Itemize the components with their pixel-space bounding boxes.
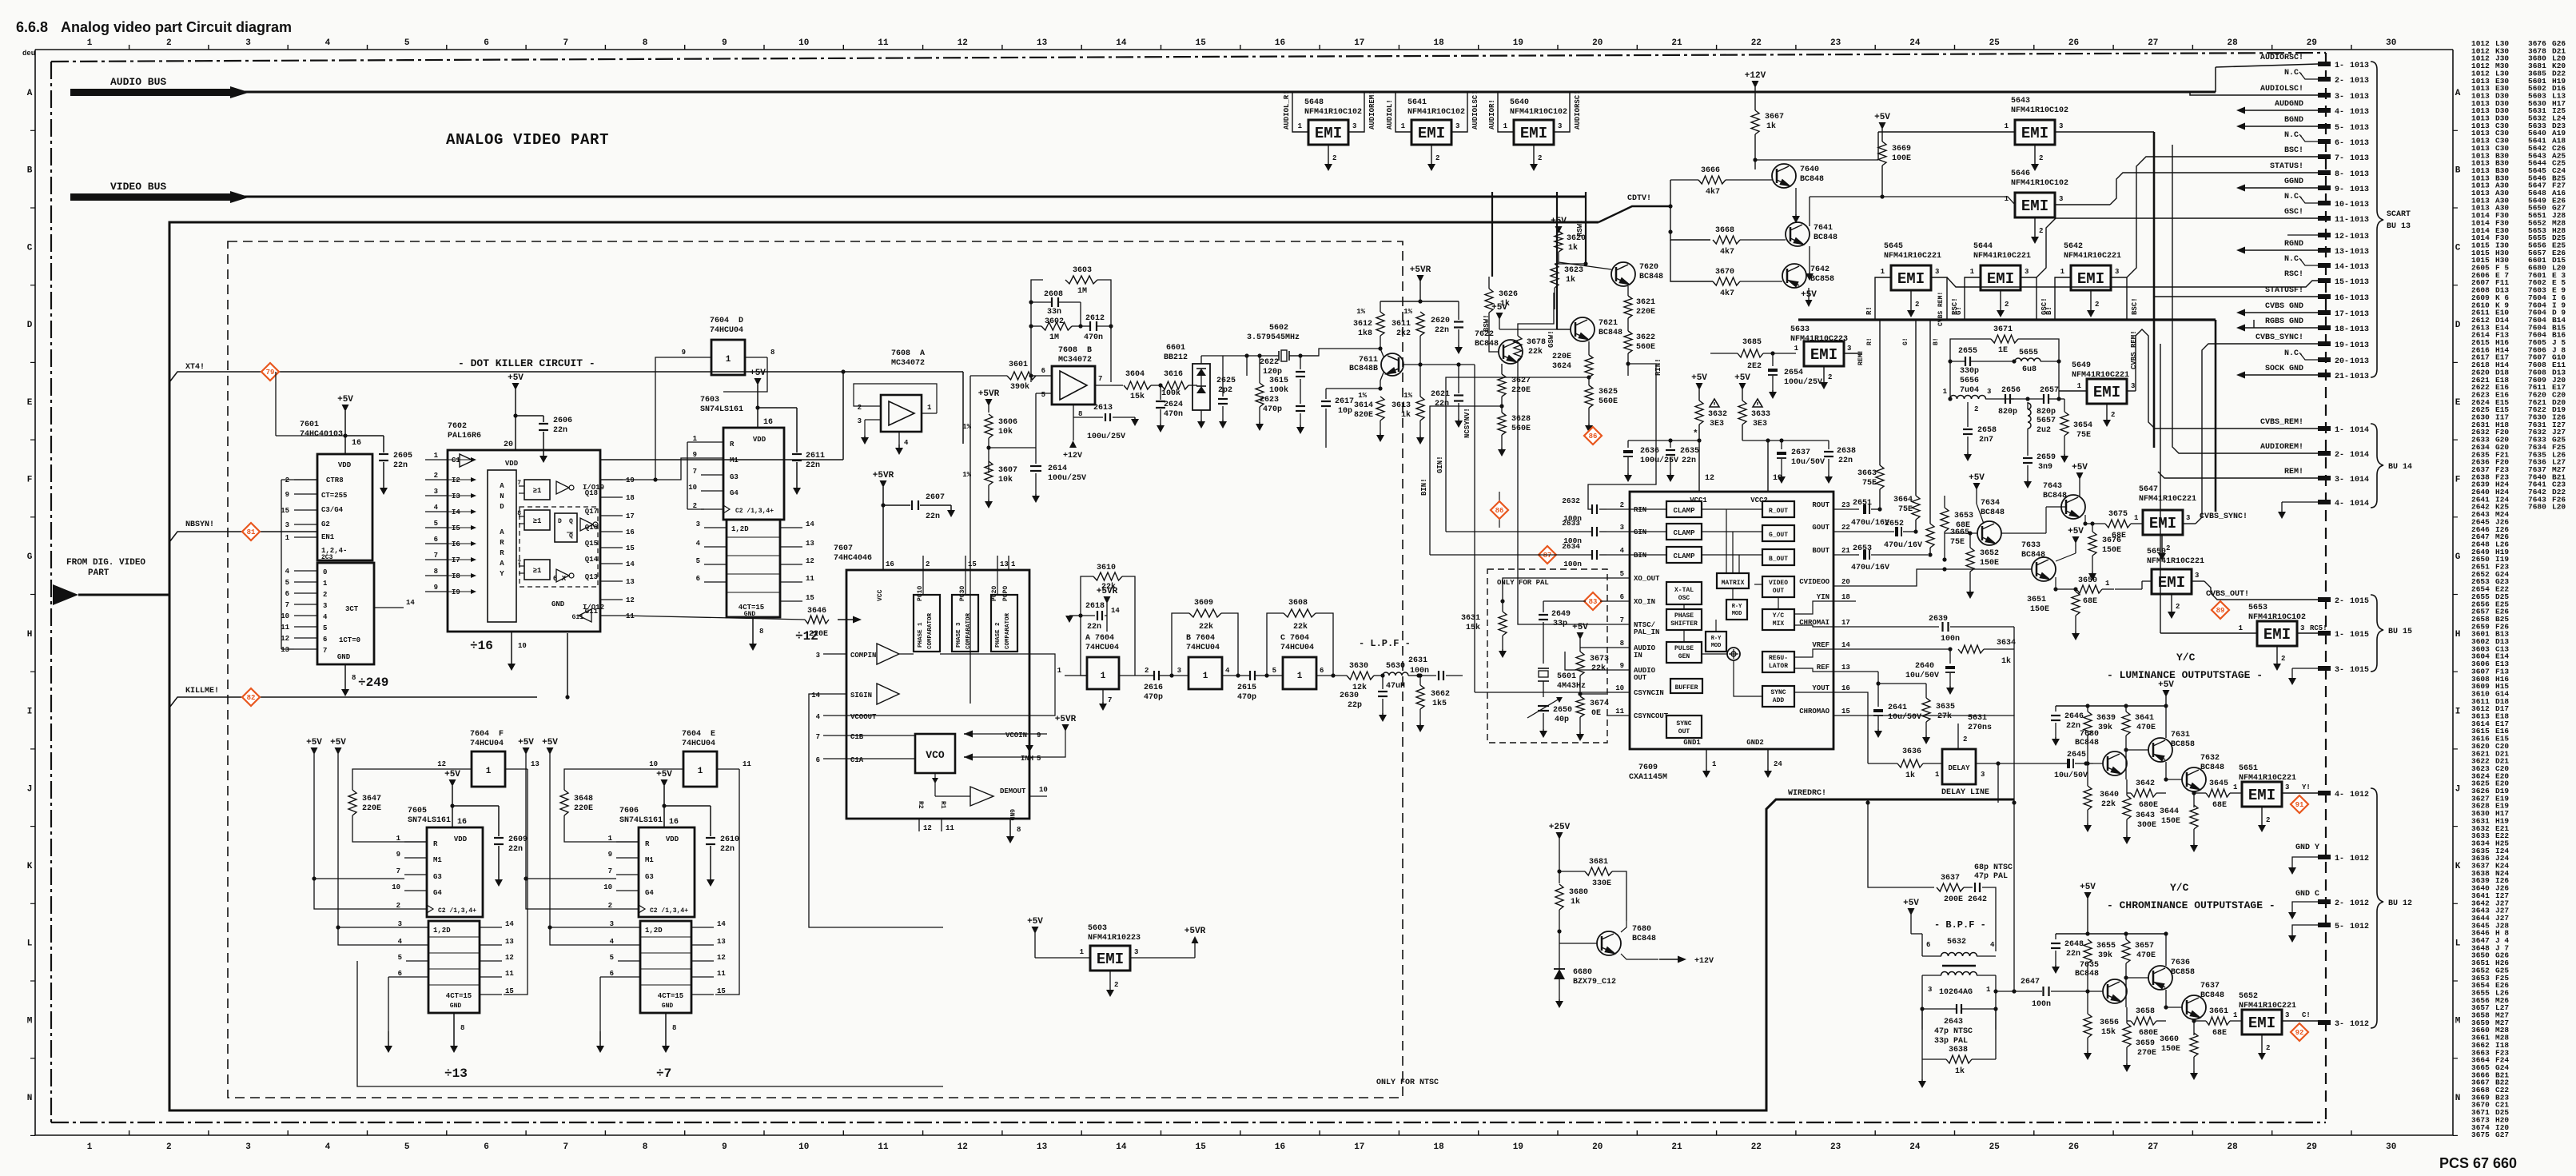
svg-text:- B.P.F -: - B.P.F - bbox=[1934, 919, 1986, 931]
capacitor 2613 bbox=[1073, 417, 1103, 418]
svg-text:7622: 7622 bbox=[1475, 330, 1494, 339]
svg-text:7: 7 bbox=[563, 38, 568, 48]
svg-text:3: 3 bbox=[434, 488, 438, 496]
svg-text:+5V: +5V bbox=[2068, 527, 2084, 536]
svg-text:6 X: 6 X bbox=[553, 575, 567, 583]
svg-text:2635: 2635 bbox=[1680, 447, 1699, 456]
svg-text:16: 16 bbox=[886, 560, 894, 568]
svg-text:1: 1 bbox=[1712, 760, 1717, 768]
svg-text:28: 28 bbox=[2227, 1142, 2238, 1152]
from dig video part arrow bbox=[53, 584, 78, 605]
transistor 7631 bbox=[2148, 738, 2172, 762]
svg-text:7632: 7632 bbox=[2200, 754, 2220, 763]
resistor 3608 bbox=[1284, 609, 1316, 617]
svg-text:2613: 2613 bbox=[1093, 404, 1113, 413]
resistor 3675 bbox=[2084, 515, 2086, 524]
svg-text:VDD: VDD bbox=[505, 460, 519, 468]
svg-text:22n: 22n bbox=[1682, 456, 1696, 465]
svg-text:5: 5 bbox=[323, 624, 327, 632]
resistor 3643 bbox=[2123, 795, 2131, 819]
svg-text:1013: 1013 bbox=[2350, 216, 2369, 225]
svg-text:3664: 3664 bbox=[1893, 496, 1913, 504]
svg-text:16-: 16- bbox=[2335, 294, 2349, 303]
svg-text:3662: 3662 bbox=[1431, 690, 1450, 699]
svg-text:150E: 150E bbox=[2102, 546, 2121, 555]
pin 19 wire bbox=[1767, 441, 1769, 492]
wire AUDIOREM bbox=[2172, 145, 2318, 453]
svg-text:Q15: Q15 bbox=[585, 540, 598, 548]
svg-text:7642: 7642 bbox=[1810, 265, 1829, 274]
zener 6680 bbox=[1559, 947, 1560, 969]
svg-text:7: 7 bbox=[323, 647, 327, 655]
svg-text:17: 17 bbox=[1841, 619, 1850, 627]
IC 7603 lower box bbox=[727, 520, 780, 617]
svg-text:18: 18 bbox=[626, 494, 635, 502]
svg-text:3CT: 3CT bbox=[345, 605, 359, 613]
svg-text:VCOOUT: VCOOUT bbox=[850, 713, 877, 721]
svg-text:PCS 67 660: PCS 67 660 bbox=[2439, 1155, 2517, 1171]
audio bus wire bbox=[240, 91, 2216, 94]
svg-text:3675: 3675 bbox=[2471, 1130, 2490, 1139]
svg-text:5645: 5645 bbox=[1884, 242, 1903, 251]
svg-text:3680: 3680 bbox=[1569, 888, 1588, 897]
svg-text:15k: 15k bbox=[1130, 392, 1145, 401]
svg-text:≥1: ≥1 bbox=[533, 517, 542, 525]
resistor 3676 bbox=[2088, 532, 2096, 556]
svg-text:ADD: ADD bbox=[1773, 697, 1785, 704]
op-amp 7608B pins bbox=[1036, 375, 1052, 377]
wire cvideoo to buffer stage bbox=[1856, 569, 1945, 586]
svg-text:2k2: 2k2 bbox=[1396, 329, 1411, 338]
CVBS_OUT wire to connector bbox=[2204, 581, 2322, 600]
svg-text:GND: GND bbox=[337, 653, 351, 661]
svg-text:2645: 2645 bbox=[2067, 751, 2086, 759]
svg-text:200E: 200E bbox=[1944, 895, 1963, 904]
left pins CXA bbox=[1607, 508, 1630, 510]
svg-text:AUDIOLSC!: AUDIOLSC! bbox=[2260, 85, 2303, 94]
net marker 89 bbox=[2212, 601, 2229, 619]
svg-text:21: 21 bbox=[1671, 1142, 1682, 1152]
svg-text:1013: 1013 bbox=[2350, 233, 2369, 241]
capacitor 2657 bbox=[2043, 394, 2044, 404]
svg-text:81: 81 bbox=[247, 528, 256, 536]
svg-text:19: 19 bbox=[1513, 38, 1523, 48]
svg-text:11: 11 bbox=[281, 624, 289, 632]
scart pin 8 BU13 STATUS! bbox=[2318, 170, 2331, 175]
svg-text:3-: 3- bbox=[2335, 666, 2344, 675]
svg-text:NFM41R10C221: NFM41R10C221 bbox=[2139, 495, 2196, 504]
svg-text:29: 29 bbox=[2307, 38, 2317, 48]
svg-text:2: 2 bbox=[1974, 405, 1978, 413]
svg-text:MC34072: MC34072 bbox=[891, 359, 925, 368]
svg-text:120p: 120p bbox=[1263, 368, 1282, 377]
svg-text:SN74LS161: SN74LS161 bbox=[619, 816, 663, 825]
chroma vertical from pin15 bbox=[1856, 716, 2014, 763]
svg-text:GND: GND bbox=[551, 600, 565, 608]
svg-text:FROM DIG. VIDEO: FROM DIG. VIDEO bbox=[66, 558, 145, 568]
svg-text:MIX: MIX bbox=[1773, 620, 1785, 628]
svg-text:16: 16 bbox=[626, 528, 635, 536]
svg-text:COMPARATOR: COMPARATOR bbox=[927, 612, 934, 649]
svg-text:4-: 4- bbox=[2335, 500, 2344, 508]
svg-text:GEN: GEN bbox=[1678, 653, 1690, 660]
svg-text:470E: 470E bbox=[2136, 724, 2156, 732]
svg-text:1: 1 bbox=[1935, 771, 1940, 779]
svg-text:7636: 7636 bbox=[2171, 959, 2190, 967]
resistor 3641 bbox=[2122, 712, 2130, 735]
svg-text:28: 28 bbox=[2227, 38, 2238, 48]
svg-text:1014: 1014 bbox=[2350, 451, 2369, 460]
svg-text:12: 12 bbox=[1705, 474, 1714, 483]
svg-text:GND: GND bbox=[744, 611, 756, 618]
IC 7605 SN74LS161 pin8 ground bbox=[453, 1013, 455, 1031]
transistor 7641 bbox=[1786, 222, 1810, 246]
svg-text:3613: 3613 bbox=[1392, 401, 1411, 410]
svg-text:21: 21 bbox=[1671, 38, 1682, 48]
svg-text:3n9: 3n9 bbox=[2038, 463, 2052, 472]
svg-text:INH: INH bbox=[1021, 755, 1033, 763]
svg-text:EMI: EMI bbox=[1418, 125, 1445, 142]
scart pin 4 BU13 AUDGND bbox=[2318, 108, 2331, 113]
svg-text:22k: 22k bbox=[1293, 622, 1308, 632]
svg-text:7602: 7602 bbox=[448, 422, 467, 431]
svg-text:1013: 1013 bbox=[2350, 373, 2369, 381]
svg-text:100k: 100k bbox=[1161, 389, 1181, 398]
svg-text:74HCU04: 74HCU04 bbox=[470, 739, 504, 748]
svg-text:8: 8 bbox=[759, 628, 763, 636]
svg-text:15k: 15k bbox=[1466, 623, 1480, 632]
svg-text:2659: 2659 bbox=[2037, 453, 2056, 462]
connector pin 2 BU14 AUDIOREM! bbox=[2318, 451, 2331, 456]
svg-text:AUDGND: AUDGND bbox=[2275, 100, 2303, 109]
svg-text:G11: G11 bbox=[585, 608, 599, 616]
svg-text:39k: 39k bbox=[2098, 951, 2112, 960]
svg-text:5644: 5644 bbox=[1973, 242, 1993, 251]
svg-text:7635: 7635 bbox=[2080, 961, 2099, 970]
resistor 3638 bbox=[1946, 1055, 1972, 1063]
svg-text:G3: G3 bbox=[730, 473, 739, 481]
resistor 3657 bbox=[2122, 939, 2130, 963]
svg-text:2606: 2606 bbox=[553, 417, 572, 425]
svg-text:J: J bbox=[27, 784, 33, 794]
svg-text:WIREDRC!: WIREDRC! bbox=[1788, 789, 1826, 798]
svg-text:3: 3 bbox=[1177, 667, 1181, 675]
resistor 3610 bbox=[1093, 572, 1122, 580]
svg-text:F: F bbox=[27, 476, 33, 485]
capacitor 2610 bbox=[662, 803, 666, 807]
svg-text:3634: 3634 bbox=[1997, 639, 2016, 648]
svg-text:RGND: RGND bbox=[2284, 240, 2303, 249]
svg-text:3607: 3607 bbox=[998, 466, 1017, 475]
7602 input buffer triangle bbox=[460, 454, 473, 467]
capacitor 2615 bbox=[1249, 671, 1251, 680]
svg-text:SIGIN: SIGIN bbox=[850, 692, 872, 700]
svg-text:REGU-: REGU- bbox=[1769, 655, 1788, 662]
svg-text:8: 8 bbox=[434, 568, 438, 576]
svg-text:3-: 3- bbox=[2335, 93, 2344, 102]
svg-text:7: 7 bbox=[517, 480, 521, 487]
svg-text:5: 5 bbox=[285, 579, 289, 587]
capacitor 2631 bbox=[1419, 675, 1436, 676]
svg-text:2610: 2610 bbox=[720, 835, 739, 844]
svg-text:+5V: +5V bbox=[1969, 473, 1985, 483]
svg-text:19: 19 bbox=[626, 476, 635, 484]
resistor 3650 bbox=[2055, 577, 2056, 589]
svg-text:22n: 22n bbox=[1435, 400, 1449, 409]
resistor 3611 bbox=[1416, 312, 1424, 336]
svg-text:14: 14 bbox=[406, 599, 415, 607]
svg-text:B!: B! bbox=[2045, 306, 2053, 315]
svg-text:7601: 7601 bbox=[300, 421, 319, 429]
svg-text:6: 6 bbox=[434, 536, 438, 544]
svg-text:CLAMP: CLAMP bbox=[1673, 529, 1695, 537]
svg-text:13-: 13- bbox=[2335, 248, 2349, 257]
svg-text:RIN: RIN bbox=[1634, 506, 1646, 514]
capacitor 2611 bbox=[755, 405, 759, 409]
capacitor 2617 bbox=[1325, 389, 1327, 399]
svg-text:2: 2 bbox=[1145, 667, 1149, 675]
svg-text:ANALOG VIDEO PART: ANALOG VIDEO PART bbox=[446, 131, 609, 149]
svg-text:3609: 3609 bbox=[1194, 599, 1213, 608]
svg-text:D: D bbox=[558, 518, 562, 525]
svg-text:12: 12 bbox=[806, 557, 814, 565]
svg-text:G3: G3 bbox=[433, 873, 442, 881]
IC 7606 SN74LS161 pins lower bbox=[618, 927, 640, 928]
7602 dashed 6X box bbox=[520, 507, 598, 587]
svg-text:2: 2 bbox=[2266, 816, 2270, 824]
svg-text:SYNC: SYNC bbox=[1676, 720, 1691, 728]
svg-text:5630: 5630 bbox=[1386, 662, 1405, 671]
svg-text:I7: I7 bbox=[452, 556, 460, 564]
svg-text:3668: 3668 bbox=[1715, 226, 1734, 235]
svg-text:2618: 2618 bbox=[1085, 602, 1105, 611]
svg-text:J: J bbox=[2455, 784, 2461, 794]
svg-text:2649: 2649 bbox=[1551, 610, 1571, 619]
svg-text:9: 9 bbox=[434, 584, 438, 592]
ground arrow left 7605 SN74LS161 bbox=[388, 976, 406, 978]
svg-text:VCOIN: VCOIN bbox=[1005, 732, 1027, 739]
svg-text:2C3: 2C3 bbox=[321, 554, 333, 561]
capacitor 2623 bbox=[1300, 392, 1301, 404]
svg-text:R: R bbox=[730, 441, 735, 448]
svg-text:220E: 220E bbox=[574, 804, 593, 813]
svg-text:A: A bbox=[500, 528, 504, 536]
svg-text:BU 12: BU 12 bbox=[2388, 899, 2412, 908]
7602 G11 inverter bbox=[579, 609, 591, 622]
resistor 3653 bbox=[1941, 508, 1949, 532]
capacitor 2618 bbox=[1081, 615, 1095, 616]
svg-text:6: 6 bbox=[1926, 941, 1930, 949]
scart pin 13 BU13 RGND bbox=[2318, 248, 2331, 253]
svg-text:1012: 1012 bbox=[2350, 791, 2369, 799]
svg-text:470u/16V: 470u/16V bbox=[1884, 540, 1922, 550]
YOUT wire to delay bbox=[1856, 692, 1868, 763]
svg-text:1M: 1M bbox=[1077, 287, 1087, 296]
svg-text:7: 7 bbox=[693, 468, 697, 476]
pal_in wire bbox=[1518, 360, 1607, 624]
svg-text:12: 12 bbox=[626, 596, 635, 604]
svg-text:1013: 1013 bbox=[2350, 248, 2369, 257]
svg-text:3685: 3685 bbox=[1742, 338, 1762, 347]
svg-text:8: 8 bbox=[643, 1142, 648, 1152]
svg-text:22k: 22k bbox=[1199, 622, 1213, 632]
svg-text:1: 1 bbox=[1401, 122, 1406, 130]
svg-text:3650: 3650 bbox=[2078, 576, 2097, 585]
svg-text:CVBS REM!: CVBS REM! bbox=[1937, 292, 1945, 326]
svg-text:G_OUT: G_OUT bbox=[1769, 532, 1788, 539]
svg-text:IN: IN bbox=[1634, 652, 1642, 660]
svg-text:AUDIO BUS: AUDIO BUS bbox=[110, 76, 166, 88]
svg-text:12: 12 bbox=[281, 635, 289, 643]
svg-text:2653: 2653 bbox=[1853, 544, 1872, 553]
svg-text:GND C: GND C bbox=[2295, 890, 2319, 899]
svg-text:74HC4046: 74HC4046 bbox=[834, 554, 872, 563]
svg-text:3: 3 bbox=[2300, 624, 2304, 632]
svg-text:BC848: BC848 bbox=[1800, 175, 1824, 184]
svg-text:1k5: 1k5 bbox=[1432, 699, 1447, 708]
svg-text:1013: 1013 bbox=[2350, 185, 2369, 194]
IC 7601 pin8 ground bbox=[344, 664, 346, 681]
svg-text:EMI: EMI bbox=[2077, 270, 2104, 288]
svg-text:EMI: EMI bbox=[1315, 125, 1342, 142]
svg-text:5: 5 bbox=[1037, 755, 1041, 763]
IC 7601 upper box bbox=[317, 454, 372, 560]
svg-text:2640: 2640 bbox=[1915, 662, 1934, 671]
svg-text:EMI: EMI bbox=[1810, 346, 1837, 364]
svg-text:100u/25V: 100u/25V bbox=[1784, 377, 1822, 387]
capacitor 2608 bbox=[1051, 297, 1053, 307]
7607 COMPIN pin3 bbox=[823, 653, 846, 655]
svg-text:68E: 68E bbox=[2212, 801, 2227, 810]
svg-text:3648: 3648 bbox=[574, 795, 593, 803]
IC 7602 left pins bbox=[425, 459, 448, 460]
svg-text:2654: 2654 bbox=[1784, 369, 1803, 377]
svg-text:R2: R2 bbox=[917, 801, 924, 809]
svg-text:11: 11 bbox=[946, 824, 954, 832]
svg-text:2615: 2615 bbox=[1237, 684, 1256, 692]
bottom routing wire bbox=[357, 961, 943, 1086]
IC 7603 upper box bbox=[723, 428, 784, 520]
transistor 7636 bbox=[2148, 966, 2172, 990]
svg-text:1k: 1k bbox=[1766, 122, 1776, 131]
xo_out wire bbox=[1503, 578, 1607, 601]
svg-text:74HCU04: 74HCU04 bbox=[1085, 644, 1119, 652]
svg-text:1: 1 bbox=[726, 355, 731, 365]
svg-text:10-: 10- bbox=[2335, 201, 2349, 209]
svg-text:I9: I9 bbox=[452, 588, 460, 596]
svg-text:3646: 3646 bbox=[807, 607, 826, 616]
svg-text:3663: 3663 bbox=[1857, 469, 1877, 478]
svg-text:1013: 1013 bbox=[2350, 278, 2369, 287]
svg-text:GND: GND bbox=[450, 1003, 462, 1010]
svg-text:EMI: EMI bbox=[1097, 951, 1124, 968]
svg-text:VCC: VCC bbox=[877, 589, 884, 601]
svg-text:19-: 19- bbox=[2335, 341, 2349, 350]
svg-text:3601: 3601 bbox=[1009, 361, 1028, 369]
svg-text:6u8: 6u8 bbox=[2022, 365, 2037, 374]
svg-text:22n: 22n bbox=[508, 845, 523, 854]
svg-text:BC848: BC848 bbox=[1639, 273, 1663, 281]
svg-text:23: 23 bbox=[1841, 501, 1850, 509]
svg-text:10k: 10k bbox=[998, 475, 1013, 484]
svg-text:3626: 3626 bbox=[1499, 290, 1518, 299]
svg-text:1013: 1013 bbox=[2350, 325, 2369, 334]
svg-text:11: 11 bbox=[505, 970, 514, 978]
svg-text:6: 6 bbox=[696, 575, 700, 583]
7611 base collector emitter wires bbox=[1289, 349, 1380, 356]
svg-text:GSW!: GSW! bbox=[1547, 330, 1555, 348]
svg-text:6: 6 bbox=[484, 38, 489, 48]
svg-text:OSC: OSC bbox=[1678, 595, 1690, 602]
svg-text:Y/C: Y/C bbox=[2176, 652, 2196, 664]
7607 VCO box bbox=[915, 734, 955, 773]
svg-text:K: K bbox=[27, 862, 33, 871]
svg-text:5: 5 bbox=[404, 38, 410, 48]
svg-text:9: 9 bbox=[1037, 732, 1041, 739]
net markers 86 87 88 bbox=[1584, 427, 1602, 444]
wire GSC bbox=[2037, 218, 2318, 277]
capacitor 2655 bbox=[1965, 357, 1966, 366]
svg-text:33n: 33n bbox=[1047, 308, 1061, 317]
svg-text:EMI: EMI bbox=[2093, 384, 2120, 401]
svg-text:1,2D: 1,2D bbox=[731, 525, 749, 533]
vertical bus x2772 bbox=[2215, 67, 2216, 92]
svg-text:13: 13 bbox=[806, 540, 814, 548]
svg-text:+5V: +5V bbox=[1027, 917, 1043, 927]
svg-text:VDD: VDD bbox=[338, 461, 352, 469]
svg-text:8: 8 bbox=[1620, 640, 1624, 648]
svg-text:G4: G4 bbox=[433, 889, 442, 897]
svg-text:5647: 5647 bbox=[2139, 485, 2158, 494]
svg-text:5601: 5601 bbox=[1557, 672, 1576, 681]
svg-text:*: * bbox=[1693, 429, 1698, 439]
svg-text:3666: 3666 bbox=[1701, 166, 1720, 175]
svg-text:3656: 3656 bbox=[2100, 1019, 2119, 1027]
svg-text:330E: 330E bbox=[1592, 879, 1611, 888]
svg-text:22: 22 bbox=[1751, 38, 1762, 48]
svg-text:+5VR: +5VR bbox=[978, 389, 1000, 399]
svg-text:22n: 22n bbox=[2066, 950, 2080, 959]
wire CVBS_SYNC to pin19 bbox=[2196, 344, 2318, 524]
svg-text:10: 10 bbox=[392, 883, 400, 891]
svg-text:1013: 1013 bbox=[2350, 108, 2369, 117]
svg-text:100n: 100n bbox=[1563, 560, 1582, 568]
svg-text:100u/25V: 100u/25V bbox=[1087, 432, 1125, 441]
svg-text:22k: 22k bbox=[1591, 664, 1606, 673]
svg-text:3657: 3657 bbox=[2135, 942, 2154, 951]
svg-text:BOUT: BOUT bbox=[1812, 547, 1829, 555]
resistor 3640 bbox=[2084, 786, 2092, 810]
svg-text:C3/G4: C3/G4 bbox=[321, 506, 344, 514]
svg-text:27: 27 bbox=[2148, 1142, 2158, 1152]
svg-text:A: A bbox=[27, 89, 33, 98]
resistor 3626 bbox=[1485, 289, 1493, 313]
svg-text:2605: 2605 bbox=[393, 452, 412, 460]
svg-text:EMI: EMI bbox=[2021, 125, 2048, 142]
svg-text:CDTV!: CDTV! bbox=[1627, 194, 1651, 203]
svg-text:150E: 150E bbox=[1980, 559, 1999, 568]
svg-text:3645: 3645 bbox=[2209, 779, 2228, 788]
coil 5657 bbox=[2028, 403, 2031, 429]
svg-text:1: 1 bbox=[1057, 667, 1062, 675]
resistor 3647 bbox=[348, 790, 356, 815]
svg-text:2617: 2617 bbox=[1335, 397, 1354, 406]
svg-text:7608 B: 7608 B bbox=[1058, 346, 1092, 355]
svg-text:GIN!: GIN! bbox=[1436, 456, 1444, 473]
svg-text:5655: 5655 bbox=[2019, 349, 2038, 357]
resistor 3612 bbox=[1376, 312, 1384, 336]
svg-text:3651: 3651 bbox=[2027, 596, 2046, 604]
